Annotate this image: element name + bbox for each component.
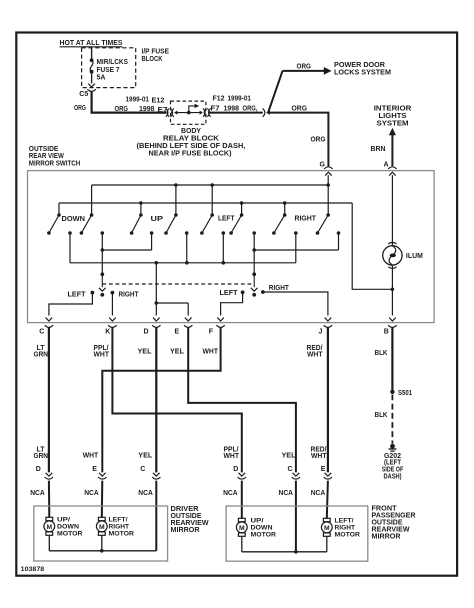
- svg-text:WHT: WHT: [94, 351, 110, 358]
- svg-text:DOWN: DOWN: [62, 216, 86, 223]
- svg-text:C: C: [39, 328, 44, 335]
- svg-text:GRN: GRN: [34, 453, 49, 460]
- connector E12/E7 (left): [166, 108, 168, 116]
- svg-text:M: M: [239, 525, 245, 532]
- switch RIGHT blade 2: [326, 213, 330, 217]
- svg-text:POWER DOOR: POWER DOOR: [334, 62, 385, 69]
- svg-text:ORG: ORG: [292, 105, 308, 112]
- svg-text:REARVIEW: REARVIEW: [372, 527, 410, 534]
- svg-text:(BEHIND LEFT SIDE OF DASH,: (BEHIND LEFT SIDE OF DASH,: [137, 143, 246, 150]
- svg-text:C: C: [140, 466, 145, 473]
- svg-text:I/P FUSE: I/P FUSE: [142, 49, 170, 56]
- svg-text:MIR/LCKS: MIR/LCKS: [97, 59, 129, 66]
- svg-text:INTERIOR: INTERIOR: [374, 106, 412, 113]
- svg-text:BRN: BRN: [371, 146, 386, 153]
- ground G202: [390, 444, 395, 449]
- connector C5: [87, 89, 95, 91]
- splice S501: [390, 390, 394, 394]
- svg-text:MOTOR: MOTOR: [251, 531, 277, 538]
- svg-text:LEFT: LEFT: [68, 291, 87, 298]
- selector left common: [100, 272, 104, 276]
- terminal B: [389, 318, 396, 321]
- wire YEL into driver box: [155, 481, 157, 551]
- svg-text:1998: 1998: [139, 106, 155, 113]
- svg-text:WHT: WHT: [307, 351, 323, 358]
- wire contact drop x70: [69, 233, 71, 263]
- svg-text:WHT: WHT: [203, 349, 219, 356]
- svg-text:MIRROR SWITCH: MIRROR SWITCH: [29, 160, 81, 167]
- wire YEL into passenger box: [295, 481, 297, 552]
- svg-text:BODY: BODY: [181, 128, 201, 135]
- svg-text:NCA: NCA: [223, 490, 238, 497]
- selector left LEFT contact: [91, 291, 95, 295]
- svg-text:DOWN: DOWN: [57, 523, 79, 530]
- svg-text:E7: E7: [158, 107, 168, 114]
- svg-text:UP: UP: [151, 216, 164, 223]
- svg-text:YEL: YEL: [138, 453, 153, 460]
- wire WHT F: [102, 327, 220, 472]
- wire contact drop x223: [222, 233, 224, 263]
- wire through relay block: [175, 112, 202, 114]
- passenger mirror box: [226, 506, 368, 561]
- svg-text:LOCKS SYSTEM: LOCKS SYSTEM: [334, 70, 391, 77]
- svg-text:E: E: [92, 466, 97, 473]
- node relay junction: [187, 111, 191, 115]
- svg-text:SYSTEM: SYSTEM: [377, 121, 409, 128]
- terminal D: [153, 318, 160, 321]
- svg-text:DRIVER: DRIVER: [171, 506, 199, 513]
- svg-text:YEL: YEL: [282, 453, 297, 460]
- svg-text:ILUM: ILUM: [406, 253, 423, 260]
- svg-text:1999-01: 1999-01: [228, 95, 252, 102]
- terminal F: [217, 318, 224, 321]
- switch DOWN blade 2: [90, 213, 94, 217]
- mirror switch box: [28, 171, 435, 323]
- node LEFT contacts: [222, 231, 226, 235]
- svg-text:C: C: [288, 466, 293, 473]
- svg-text:GRN: GRN: [34, 351, 49, 358]
- selector right RIGHT contact: [261, 290, 265, 294]
- wire to passenger left/right motor: [327, 481, 328, 519]
- svg-text:DOWN: DOWN: [251, 524, 273, 531]
- svg-text:MIRROR: MIRROR: [171, 527, 200, 534]
- wire selector-right to F: [221, 292, 243, 315]
- wire stub LEFT-1: [211, 185, 213, 215]
- terminal J: [325, 318, 332, 321]
- node DOWN contacts: [68, 231, 72, 235]
- wire E drop: [187, 303, 189, 316]
- wire contact drop x186: [186, 233, 188, 263]
- wire selector-right to J: [263, 292, 328, 316]
- svg-text:B: B: [384, 329, 389, 336]
- connector splitter: [263, 108, 265, 116]
- svg-text:RIGHT: RIGHT: [119, 292, 140, 299]
- wire ORG to power door locks: [283, 70, 325, 72]
- wire ORG fuse to relay block: [92, 91, 167, 112]
- svg-text:E: E: [321, 466, 326, 473]
- wire RED/WHT J: [327, 327, 329, 472]
- switch DOWN blade 1: [57, 213, 61, 217]
- svg-text:WHT: WHT: [311, 453, 327, 460]
- svg-text:FRONT: FRONT: [372, 506, 398, 513]
- node passenger common junction: [294, 550, 298, 554]
- svg-text:REAR VIEW: REAR VIEW: [29, 153, 64, 160]
- wire BLK B: [391, 327, 393, 392]
- svg-text:M: M: [99, 524, 105, 531]
- svg-text:YEL: YEL: [170, 349, 185, 356]
- wire passenger motor commons: [241, 537, 243, 552]
- selector right common: [252, 272, 256, 276]
- body relay block (dashed box): [171, 101, 206, 124]
- svg-text:ORG: ORG: [115, 106, 129, 113]
- terminal A: [388, 167, 396, 169]
- svg-text:ORG: ORG: [74, 105, 86, 112]
- node lamp bottom junction: [391, 288, 395, 292]
- wire BLK dashed to ground: [391, 395, 393, 444]
- wire relay to splitter: [210, 112, 263, 114]
- wire to driver up/down motor: [48, 481, 50, 518]
- svg-text:LEFT: LEFT: [220, 290, 239, 297]
- svg-text:E: E: [175, 328, 180, 335]
- driver mirror box: [34, 506, 168, 561]
- svg-text:BLK: BLK: [375, 412, 388, 419]
- svg-text:1999-01: 1999-01: [126, 97, 150, 104]
- motor driver left/right: [98, 517, 105, 520]
- terminal C: [46, 318, 53, 321]
- svg-text:RIGHT: RIGHT: [295, 215, 317, 222]
- terminal K: [109, 318, 116, 321]
- wire stub UP-1: [140, 203, 142, 215]
- svg-text:S501: S501: [398, 390, 412, 397]
- svg-text:UP/: UP/: [57, 516, 70, 523]
- svg-text:WHT: WHT: [224, 453, 240, 460]
- node rail y262.8 junctions: [155, 261, 159, 265]
- wire to driver left/right motor: [101, 481, 104, 518]
- wire selector-left to C: [49, 293, 93, 316]
- svg-text:ORG: ORG: [311, 137, 327, 144]
- wire top bus: [92, 184, 329, 186]
- wire stub DOWN-1: [58, 203, 60, 215]
- wire LT GRN C: [48, 327, 50, 472]
- svg-text:F7: F7: [211, 105, 220, 112]
- switch LEFT blade 1: [210, 213, 214, 217]
- wire rail y250 right: [254, 249, 338, 251]
- svg-text:D: D: [233, 466, 238, 473]
- node RIGHT contacts: [294, 231, 298, 235]
- svg-text:ORG: ORG: [297, 63, 312, 70]
- terminal E: [185, 318, 192, 321]
- svg-text:RELAY BLOCK: RELAY BLOCK: [163, 135, 219, 142]
- wire YEL D: [155, 327, 157, 472]
- wire D-E rail: [156, 302, 188, 304]
- svg-text:MIRROR: MIRROR: [372, 534, 401, 541]
- svg-text:UP/: UP/: [251, 517, 264, 524]
- terminal G: [324, 167, 332, 169]
- svg-text:MOTOR: MOTOR: [57, 530, 83, 537]
- svg-text:E12: E12: [152, 97, 165, 104]
- svg-text:YEL: YEL: [138, 349, 153, 356]
- wire contact drop x254: [253, 233, 255, 274]
- wire to passenger up/down motor: [241, 481, 243, 519]
- svg-text:K: K: [105, 328, 110, 335]
- svg-text:J: J: [319, 328, 323, 335]
- wire G feed: [327, 175, 329, 215]
- selector right LEFT contact: [241, 290, 245, 294]
- svg-text:LEFT/: LEFT/: [335, 517, 354, 524]
- svg-text:A: A: [384, 161, 389, 168]
- svg-text:OUTSIDE: OUTSIDE: [372, 520, 403, 527]
- svg-text:NCA: NCA: [30, 490, 45, 497]
- svg-text:REARVIEW: REARVIEW: [171, 520, 209, 527]
- fuse MIR/LCKS FUSE 7 5A: [91, 48, 93, 60]
- svg-text:F: F: [209, 328, 214, 335]
- svg-text:F12: F12: [213, 95, 225, 102]
- wire BRN arrow to interior lights: [391, 135, 393, 167]
- switch LEFT blade 2: [240, 213, 244, 217]
- svg-text:DASH): DASH): [384, 474, 402, 481]
- svg-text:BLK: BLK: [375, 350, 388, 357]
- svg-text:D: D: [144, 328, 149, 335]
- wire YEL E: [188, 327, 296, 472]
- wire driver motor commons: [48, 536, 50, 551]
- wire stub UP-2: [175, 185, 177, 215]
- svg-text:NCA: NCA: [84, 490, 99, 497]
- node top bus junctions: [174, 183, 178, 187]
- svg-text:PASSENGER: PASSENGER: [372, 513, 416, 520]
- svg-text:NCA: NCA: [279, 490, 294, 497]
- relay branch arrow: [189, 106, 195, 113]
- wire contact drop x102: [101, 233, 103, 274]
- svg-text:LEFT: LEFT: [218, 216, 235, 223]
- svg-text:BLOCK: BLOCK: [142, 56, 163, 63]
- connector F12/F7 (right): [200, 111, 203, 115]
- svg-text:LIGHTS: LIGHTS: [379, 113, 407, 120]
- wire diagonal to power door locks: [268, 71, 282, 112]
- wire D tap: [155, 263, 157, 303]
- svg-text:1998: 1998: [224, 105, 240, 112]
- wire selector-left to K: [111, 293, 113, 316]
- switch UP blade 1: [139, 213, 143, 217]
- svg-text:HOT AT ALL TIMES: HOT AT ALL TIMES: [60, 40, 123, 47]
- wire A feed to lamp: [391, 175, 393, 246]
- wire second bus to lamp bottom: [352, 203, 392, 289]
- wire stub LEFT-2: [241, 203, 243, 215]
- svg-text:D: D: [36, 466, 41, 473]
- wire rail y250 left: [102, 249, 151, 251]
- svg-text:M: M: [46, 524, 52, 531]
- svg-text:OUTSIDE: OUTSIDE: [171, 513, 202, 520]
- svg-text:LEFT/: LEFT/: [109, 516, 128, 523]
- wire D drop: [155, 303, 157, 316]
- svg-text:MOTOR: MOTOR: [109, 530, 135, 537]
- I/P fuse block (dashed box): [82, 48, 136, 88]
- node second bus junctions: [139, 201, 143, 205]
- dashed selector separator: [102, 283, 254, 285]
- wire rail y262.8: [70, 262, 296, 264]
- motor driver up/down: [46, 517, 53, 520]
- motor passenger up/down: [238, 518, 245, 521]
- svg-text:NCA: NCA: [311, 490, 326, 497]
- svg-text:NCA: NCA: [138, 490, 153, 497]
- wire PPL/WHT K: [112, 327, 241, 472]
- switch UP blade 2: [174, 213, 178, 217]
- svg-text:G: G: [320, 161, 326, 168]
- wire ORG to terminal G: [268, 113, 328, 167]
- selector left RIGHT contact: [111, 291, 115, 295]
- node driver common junction: [100, 549, 104, 553]
- wire lamp to B: [391, 265, 393, 316]
- motor passenger left/right: [323, 518, 330, 521]
- svg-text:OUTSIDE: OUTSIDE: [29, 146, 59, 153]
- svg-text:5A: 5A: [97, 75, 106, 82]
- switch RIGHT blade 1: [284, 203, 286, 215]
- svg-text:MOTOR: MOTOR: [335, 531, 361, 538]
- svg-text:RIGHT: RIGHT: [109, 523, 130, 530]
- svg-text:FUSE 7: FUSE 7: [97, 67, 120, 74]
- svg-text:WHT: WHT: [83, 453, 99, 460]
- svg-text:M: M: [324, 525, 330, 532]
- svg-text:C5: C5: [79, 91, 88, 98]
- svg-text:ORG,: ORG,: [243, 105, 258, 112]
- wire stub DOWN-2: [91, 185, 93, 215]
- svg-text:RIGHT: RIGHT: [269, 285, 290, 292]
- svg-text:NEAR I/P FUSE BLOCK): NEAR I/P FUSE BLOCK): [149, 150, 232, 157]
- node UP contacts: [150, 231, 154, 235]
- lamp ILUM: [383, 246, 402, 265]
- svg-text:RIGHT: RIGHT: [335, 524, 356, 531]
- wire second bus: [59, 202, 352, 204]
- svg-text:103878: 103878: [21, 566, 45, 573]
